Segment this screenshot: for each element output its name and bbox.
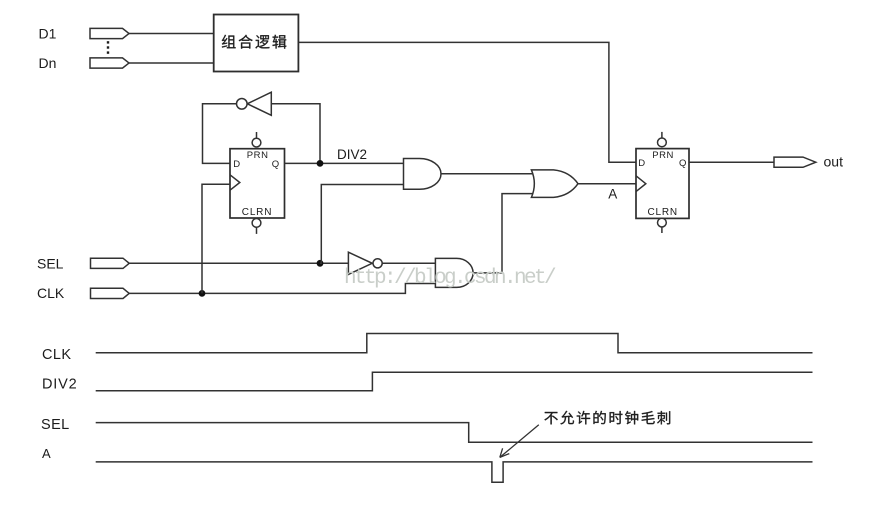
wire: logic box output to U2 D input bbox=[298, 42, 636, 162]
svg-text:CLK: CLK bbox=[37, 285, 65, 301]
svg-text:PRN: PRN bbox=[247, 150, 269, 161]
D flip-flop U2 box bbox=[636, 149, 689, 219]
svg-text:A: A bbox=[608, 187, 617, 202]
ellipsis dots between D1 and Dn bbox=[107, 41, 109, 54]
svg-text:D: D bbox=[638, 158, 645, 169]
U2 CLRN bubble bbox=[658, 218, 667, 233]
waveform DIV2 bbox=[96, 372, 813, 390]
D flip-flop U1 box bbox=[230, 149, 285, 218]
wire: AND1 output to OR input bbox=[441, 173, 534, 175]
wire D1 to logic box bbox=[129, 33, 214, 35]
OR gate O1 bbox=[531, 170, 578, 198]
input pin SEL bbox=[91, 258, 130, 268]
svg-text:D: D bbox=[233, 159, 240, 170]
wire: inverter output to AND2 input bbox=[382, 262, 435, 264]
svg-text:Q: Q bbox=[272, 159, 279, 170]
wire: CLK node up to U1 clock input bbox=[202, 184, 230, 293]
wire: Q feedback up to inverter input bbox=[271, 104, 320, 164]
wire SEL to inverter bbox=[129, 262, 348, 264]
wire: SEL node up to AND1 lower input bbox=[320, 185, 404, 264]
waveform A with glitch bbox=[96, 462, 813, 482]
wire: inverter output to U1 D input bbox=[203, 104, 237, 164]
wire Dn to logic box bbox=[129, 62, 214, 64]
svg-text:D1: D1 bbox=[39, 25, 57, 41]
wire: AND2 output up to OR lower input bbox=[473, 194, 533, 273]
junction CLK node bbox=[199, 290, 206, 297]
AND gate A2 bbox=[435, 258, 473, 287]
svg-text:DIV2: DIV2 bbox=[42, 377, 77, 393]
svg-text:http://blog.csdn.net/: http://blog.csdn.net/ bbox=[344, 267, 556, 290]
annotation text: no clock glitch allowed bbox=[544, 411, 670, 425]
svg-text:CLK: CLK bbox=[42, 347, 71, 363]
output pin out bbox=[774, 157, 816, 167]
U1 CLRN bubble bbox=[252, 219, 261, 234]
wire CLK to AND2 lower input bbox=[129, 284, 435, 294]
waveform CLK bbox=[96, 334, 813, 353]
svg-text:SEL: SEL bbox=[41, 417, 70, 433]
svg-text:CLRN: CLRN bbox=[648, 207, 678, 218]
junction SEL node bbox=[317, 260, 324, 267]
svg-text:out: out bbox=[824, 153, 844, 169]
wire: U1 Q output to DIV2 node and AND1 input bbox=[285, 162, 404, 164]
input pin Dn bbox=[90, 58, 129, 68]
input pin CLK bbox=[91, 288, 130, 298]
svg-text:DIV2: DIV2 bbox=[337, 147, 367, 162]
glitch annotation arrow bbox=[500, 425, 539, 458]
U1 PRN bubble bbox=[252, 132, 261, 147]
U2 PRN bubble bbox=[658, 132, 667, 147]
wire: OR output to U2 clock (node A) bbox=[578, 183, 636, 185]
svg-text:Q: Q bbox=[679, 158, 686, 169]
waveform SEL bbox=[96, 423, 813, 443]
AND gate A1 bbox=[404, 159, 442, 190]
svg-text:Dn: Dn bbox=[39, 55, 57, 71]
input pin D1 bbox=[90, 28, 129, 38]
combinational logic box (zu-he-luo-ji) bbox=[214, 15, 299, 72]
svg-text:A: A bbox=[42, 446, 51, 461]
inverter U4 (SEL, pointing right) bbox=[348, 252, 382, 274]
svg-text:CLRN: CLRN bbox=[242, 207, 272, 218]
wire: U2 Q to output pin bbox=[689, 161, 774, 163]
junction DIV2 node bbox=[317, 160, 324, 167]
inverter U3 (feedback, pointing left) bbox=[237, 92, 272, 115]
svg-text:SEL: SEL bbox=[37, 255, 64, 271]
svg-text:PRN: PRN bbox=[652, 150, 674, 161]
